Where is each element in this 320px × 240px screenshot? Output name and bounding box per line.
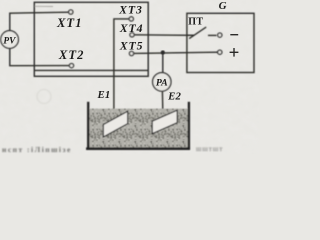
generator box G xyxy=(187,13,254,72)
panel inner bottom rail line xyxy=(34,69,148,71)
terminal XT3 xyxy=(129,17,133,21)
electrolytic bath xyxy=(86,102,190,149)
svg-text:XT4: XT4 xyxy=(119,21,144,35)
minus sign xyxy=(230,34,238,36)
terminal XT5 xyxy=(129,51,133,55)
svg-text:XT2: XT2 xyxy=(58,48,85,62)
voltmeter PV circle xyxy=(1,31,19,49)
switch fixed contact lead xyxy=(208,34,217,36)
svg-text:PV: PV xyxy=(3,36,16,46)
wire XT5 to plus contact xyxy=(134,52,218,53)
svg-text:G: G xyxy=(219,0,227,12)
switch PT blade xyxy=(189,27,206,38)
wire XT3 to electrode E1 xyxy=(114,19,129,118)
faint page show-through ghosts at bottom xyxy=(2,145,223,154)
svg-text:XT5: XT5 xyxy=(119,39,144,53)
bath left wall xyxy=(87,102,89,149)
svg-text:нспт :іЛіпшізе: нспт :іЛіпшізе xyxy=(2,145,72,154)
svg-text:E1: E1 xyxy=(97,89,111,101)
wire PA to electrode E2 xyxy=(161,91,164,116)
wire PV to XT1 xyxy=(10,12,69,31)
electrode E1 plate xyxy=(103,111,127,137)
bath right wall xyxy=(188,102,190,149)
wire PV to XT2 xyxy=(10,48,70,66)
svg-text:XT1: XT1 xyxy=(56,16,83,30)
svg-text:PA: PA xyxy=(156,78,168,89)
contact circle plus xyxy=(218,50,222,54)
terminal XT1 xyxy=(69,10,73,14)
electrolyte fill xyxy=(88,109,188,148)
svg-text:E2: E2 xyxy=(167,90,181,102)
terminal XT4 xyxy=(130,33,134,37)
svg-text:XT3: XT3 xyxy=(118,3,143,17)
electrode E2 plate xyxy=(152,110,177,134)
terminal XT2 xyxy=(69,64,73,68)
svg-text:шштшт: шштшт xyxy=(196,145,223,153)
svg-text:ПТ: ПТ xyxy=(188,16,203,27)
switch contact circle minus xyxy=(218,33,222,37)
paper background xyxy=(0,0,259,154)
switch PT stub xyxy=(187,34,194,36)
junction node dot xyxy=(161,50,165,54)
faint scan ghost of top edge xyxy=(35,5,53,7)
plus sign xyxy=(230,48,239,57)
wire junction to ammeter PA xyxy=(162,53,164,73)
faint show-through ring ghost xyxy=(37,90,51,104)
ammeter PA circle xyxy=(153,73,171,91)
wire XT4 to switch stub xyxy=(134,34,194,37)
panel rectangle (terminal board) xyxy=(34,2,148,76)
bath bottom xyxy=(86,147,190,150)
